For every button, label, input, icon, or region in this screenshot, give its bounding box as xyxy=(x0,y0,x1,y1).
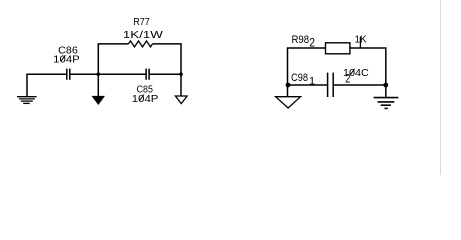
wire bottom rail right xyxy=(333,84,386,86)
wire node A down xyxy=(97,74,99,96)
pin 1 stub (R98) xyxy=(359,37,361,49)
capacitor C86 xyxy=(67,69,70,80)
svg-text:2: 2 xyxy=(309,38,315,50)
power ground arrow (filled) xyxy=(92,96,106,105)
analog ground (open triangle, large) xyxy=(276,97,301,108)
wire node A to C85 xyxy=(98,73,146,75)
wire C86 to node A xyxy=(70,73,99,75)
svg-text:2: 2 xyxy=(345,74,350,86)
wire top right lead xyxy=(153,43,182,45)
wire bottom rail left xyxy=(288,84,328,86)
resistor R77 xyxy=(129,41,153,47)
svg-text:104P: 104P xyxy=(132,94,159,105)
wire ground riser xyxy=(27,74,67,96)
node B junction xyxy=(179,72,183,76)
wire node A up xyxy=(97,44,99,74)
analog ground (open triangle) xyxy=(175,96,187,104)
svg-text:1K/1W: 1K/1W xyxy=(123,30,164,41)
value 104P (C86) xyxy=(53,55,80,66)
ground GND1 (earth) xyxy=(17,97,37,104)
wire C85 to node B xyxy=(149,73,181,75)
wire top rail right xyxy=(350,48,386,97)
wire right vertical xyxy=(180,44,182,96)
resistor R98 (box) xyxy=(326,43,350,54)
svg-text:C98: C98 xyxy=(291,72,308,84)
capacitor C98 xyxy=(328,73,334,97)
wire top rail left xyxy=(288,48,326,97)
node D junction xyxy=(383,83,388,88)
capacitor C85 xyxy=(146,69,149,80)
wire top left lead xyxy=(98,43,129,45)
svg-text:1: 1 xyxy=(309,76,315,88)
svg-text:R77: R77 xyxy=(133,17,150,28)
node C junction xyxy=(286,83,291,88)
ground GND2 (earth) xyxy=(374,98,399,109)
node A junction xyxy=(97,72,101,76)
svg-text:104P: 104P xyxy=(53,55,80,66)
value 104P (C85) xyxy=(132,94,159,105)
value 104C xyxy=(343,68,369,79)
svg-text:R98: R98 xyxy=(292,34,310,46)
window divider line xyxy=(440,0,442,175)
